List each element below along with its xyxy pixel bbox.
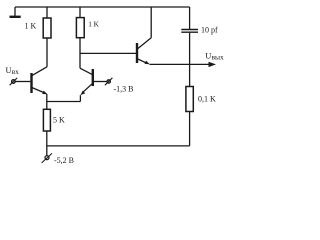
resistor R1 1 K xyxy=(46,7,48,18)
svg-text:5 K: 5 K xyxy=(53,115,65,124)
wire top rail xyxy=(15,6,190,8)
svg-text:1 K: 1 K xyxy=(25,22,37,31)
wire output node xyxy=(150,63,190,65)
transistor Q3 xyxy=(137,7,151,64)
terminal Uvx xyxy=(10,78,31,85)
ground xyxy=(14,7,16,16)
svg-text:10 pf: 10 pf xyxy=(201,26,218,35)
transistor Q2 xyxy=(80,68,93,101)
wire base Q3 xyxy=(80,52,137,54)
svg-text:Uвх: Uвх xyxy=(6,65,20,76)
svg-text:Uвых: Uвых xyxy=(205,51,224,62)
terminal -1,3 V xyxy=(93,78,113,85)
svg-text:-5,2 В: -5,2 В xyxy=(54,156,74,165)
resistor R4 0,1 K xyxy=(189,64,191,86)
terminal -5,2 V xyxy=(42,153,52,163)
resistor R3 5 K xyxy=(46,102,48,110)
svg-text:1 K: 1 K xyxy=(88,20,99,29)
transistor Q1 xyxy=(32,67,48,102)
wire emitters rail xyxy=(47,101,81,103)
capacitor C1 10 pf xyxy=(181,7,198,64)
svg-text:-1,3 В: -1,3 В xyxy=(114,85,134,94)
wire bottom rail xyxy=(47,145,190,147)
resistor R2 1 K xyxy=(79,7,81,18)
arrow Uvyx output xyxy=(190,62,216,67)
svg-text:0,1 K: 0,1 K xyxy=(198,95,216,104)
